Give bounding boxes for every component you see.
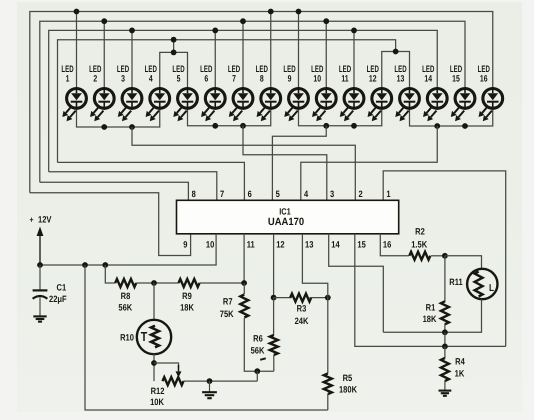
junction bridge bar LED4-5 tap: [171, 50, 177, 56]
wire R1 bottom lead: [444, 324, 446, 333]
wire bridge LED12-LED13 to bus 4: [382, 52, 410, 88]
junction R12 ground node: [207, 378, 213, 384]
wire LED11 anode riser: [353, 30, 355, 87]
wire pin 13 to R5 branch: [302, 234, 327, 374]
LED15: [450, 63, 475, 121]
svg-text:+: +: [30, 214, 34, 224]
svg-text:13: 13: [305, 240, 313, 250]
junction rail / supply: [37, 262, 43, 268]
svg-text:12: 12: [369, 74, 377, 84]
wire left branch to bottom rail: [85, 265, 328, 410]
wire lamp bottom to R1 node: [383, 299, 481, 332]
lamp R11: [467, 269, 497, 299]
svg-text:LED: LED: [283, 63, 295, 74]
svg-text:11: 11: [247, 240, 255, 250]
+12V supply arrow: [39, 234, 41, 265]
svg-text:15: 15: [357, 240, 365, 250]
wire pin 15 / pin 1 line: [355, 234, 506, 347]
resistor R2 1.5K: [409, 252, 430, 260]
svg-text:2: 2: [93, 74, 97, 84]
svg-text:9: 9: [183, 240, 187, 250]
svg-text:9: 9: [288, 74, 292, 84]
junction bus1 / LED9: [296, 9, 302, 15]
junction rail / R8 branch: [102, 262, 108, 268]
svg-text:T: T: [141, 329, 148, 344]
svg-text:8: 8: [192, 189, 196, 199]
svg-text:3: 3: [330, 189, 334, 199]
LED12: [367, 63, 392, 121]
potentiometer R12 10K: [163, 377, 184, 385]
junction R3 / pin13 line: [325, 295, 331, 301]
svg-text:2: 2: [359, 189, 363, 199]
svg-text:R7: R7: [223, 297, 233, 307]
wire R4 top lead: [444, 346, 446, 358]
svg-text:1: 1: [386, 189, 390, 199]
svg-text:15: 15: [452, 74, 460, 84]
wire LED7 anode riser: [242, 21, 244, 87]
svg-text:75K: 75K: [220, 309, 234, 319]
resistor R6 56K: [270, 335, 278, 355]
wire pin 14 link: [329, 234, 384, 332]
svg-text:LED: LED: [422, 63, 434, 74]
ground for C1: [33, 315, 46, 317]
wire LED9 anode riser: [298, 12, 300, 88]
wire cathode tie LEDs 9-12: [299, 110, 382, 126]
svg-text:LED: LED: [89, 63, 101, 74]
svg-text:11: 11: [341, 74, 348, 84]
svg-text:22μF: 22μF: [49, 294, 67, 304]
junction R7-R6 tie: [254, 368, 260, 374]
svg-text:4: 4: [304, 189, 309, 199]
svg-text:13: 13: [397, 74, 405, 84]
wire R3 left lead: [274, 297, 292, 299]
svg-text:R2: R2: [415, 227, 425, 237]
junction tie4 / LED15: [462, 123, 468, 129]
wire cathode tie LEDs 13-16: [410, 110, 493, 126]
svg-text:1K: 1K: [455, 368, 465, 378]
wire ground stem: [209, 381, 211, 392]
LED13: [394, 63, 419, 121]
LED3: [117, 63, 142, 121]
junction bus4 / LED4-5 tap: [171, 37, 177, 43]
svg-text:1.5K: 1.5K: [411, 239, 427, 249]
junction R1 top node: [442, 253, 448, 259]
LED8: [256, 63, 281, 121]
wire R12 wiper arm: [154, 363, 179, 368]
svg-text:14: 14: [424, 74, 432, 84]
svg-text:3: 3: [121, 74, 125, 84]
svg-text:LED: LED: [394, 63, 406, 74]
wire LED1 anode riser: [76, 12, 78, 88]
svg-text:12V: 12V: [38, 215, 52, 225]
svg-text:18K: 18K: [180, 303, 194, 313]
thermistor R10: [137, 320, 171, 354]
svg-text:R4: R4: [455, 357, 465, 367]
svg-text:7: 7: [232, 74, 236, 84]
LED7: [228, 63, 253, 121]
wire cathode tie LEDs 1-4: [77, 110, 160, 127]
wire R7 bottom to tie: [244, 318, 273, 371]
svg-text:R3: R3: [297, 304, 307, 314]
svg-text:14: 14: [331, 240, 340, 250]
wire bus 2 feeder to pin 8: [40, 182, 189, 200]
svg-text:LED: LED: [200, 63, 212, 74]
wire tie3 descent to pin 5: [272, 126, 326, 201]
mark dash under 56K: [260, 358, 266, 360]
junction bus3 / LED3: [129, 28, 135, 34]
svg-text:LED: LED: [117, 63, 129, 74]
svg-text:R6: R6: [253, 333, 263, 343]
wire tie drop to R12 line: [256, 371, 258, 381]
svg-text:R8: R8: [121, 291, 131, 301]
wire pin11 node to R7: [243, 283, 245, 294]
svg-text:C1: C1: [57, 283, 67, 293]
wire R9 to pin 11 node: [200, 282, 245, 284]
svg-text:6: 6: [248, 189, 252, 199]
wire tie1 descent to pin 2: [132, 127, 355, 200]
wire R3 right lead: [310, 297, 328, 299]
wire R8 branch: [105, 265, 115, 283]
junction bus1 / LED8: [268, 9, 274, 15]
junction R1 bottom / lamp line: [442, 329, 448, 335]
resistor R9 18K: [179, 279, 200, 287]
junction tie1 / LED3: [129, 124, 135, 130]
svg-text:LED: LED: [61, 63, 73, 74]
junction tie2 / LED7: [240, 123, 246, 129]
svg-text:5: 5: [276, 189, 280, 199]
wire cathode tie LEDs 5-8: [188, 110, 271, 126]
wire R8 to R10 node: [136, 282, 178, 284]
wire tie4 descent to pin 4: [301, 126, 437, 200]
svg-text:LED: LED: [311, 63, 323, 74]
svg-text:1: 1: [66, 74, 70, 84]
wire R1 node to R4 node: [444, 332, 446, 346]
LED4: [145, 63, 170, 121]
wire LED10 anode riser: [325, 21, 327, 87]
ground for R4: [439, 390, 452, 392]
ground for R12 node: [202, 391, 217, 393]
svg-text:R1: R1: [426, 303, 436, 313]
svg-text:24K: 24K: [295, 316, 309, 326]
junction tie3 / LED11: [351, 123, 357, 129]
svg-text:8: 8: [260, 74, 264, 84]
capacitor C1: [39, 265, 41, 290]
svg-text:R9: R9: [182, 291, 192, 301]
wire R2 to R1 node: [431, 255, 445, 257]
wire R4 bottom lead: [444, 381, 446, 391]
LED5: [172, 63, 197, 121]
resistor R7 75K: [240, 295, 248, 318]
wire bus 4 feeder to pin 6: [58, 162, 245, 200]
wire bus 2 (anode line LEDs 2,7,10,15 to pin 8): [40, 21, 465, 182]
svg-text:56K: 56K: [118, 303, 132, 313]
wire LED6 anode riser: [214, 30, 216, 87]
junction R4 top node: [442, 344, 448, 350]
resistor R8 56K: [115, 279, 136, 287]
wire R6 top lead: [273, 298, 275, 336]
junction bus3 / LED11: [351, 28, 357, 34]
svg-text:R10: R10: [120, 332, 134, 342]
svg-text:180K: 180K: [339, 385, 357, 395]
LED2: [89, 63, 114, 121]
wire R12 to ground node: [184, 380, 258, 382]
wire pin 16 to R2: [380, 234, 409, 256]
wire node to lamp top: [445, 256, 482, 268]
svg-text:18K: 18K: [423, 314, 437, 324]
junction tie1 / LED2: [101, 124, 107, 130]
LED11: [339, 63, 364, 121]
svg-text:UAA170: UAA170: [268, 216, 304, 228]
svg-text:16: 16: [480, 74, 488, 84]
svg-text:LED: LED: [339, 63, 351, 74]
svg-text:10: 10: [206, 240, 214, 250]
junction bus3 / LED6: [212, 28, 218, 34]
junction pin 11 node: [241, 280, 247, 286]
svg-text:10K: 10K: [150, 397, 164, 407]
wire bus 1 (anode line LEDs 1,8,9,16 to pin 9): [30, 12, 493, 193]
LED1: [61, 63, 86, 121]
junction rail / bottom-left branch: [82, 262, 88, 268]
wire +12V rail to pin 10: [40, 234, 216, 265]
wire LED2 anode riser: [103, 21, 105, 87]
wire R5 bottom to rail: [327, 394, 329, 410]
junction pin 12 node: [271, 295, 277, 301]
junction tie4 / LED14: [434, 123, 440, 129]
svg-text:16: 16: [383, 240, 391, 250]
wire R10 top lead: [153, 283, 155, 320]
wire bus 1 feeder to pin 9: [30, 193, 191, 256]
svg-text:LED: LED: [367, 63, 379, 74]
LED10: [311, 63, 336, 121]
resistor R4 1K: [441, 358, 449, 381]
LED16: [478, 63, 503, 121]
svg-text:4: 4: [149, 74, 154, 84]
junction tie3 / LED10: [323, 123, 329, 129]
svg-text:12: 12: [276, 240, 284, 250]
wire R1 top lead: [444, 256, 446, 302]
svg-text:6: 6: [204, 74, 208, 84]
wire LED3 anode riser: [131, 30, 133, 87]
junction bridge bar LED12-13 tap: [393, 49, 399, 55]
svg-text:5: 5: [177, 74, 181, 84]
junction bus2 / LED7: [240, 18, 246, 24]
LED9: [283, 63, 308, 121]
wire bus 3 feeder to pin 7: [49, 172, 217, 201]
svg-text:L: L: [489, 283, 494, 294]
wire R10 bottom lead: [153, 353, 155, 381]
svg-text:LED: LED: [450, 63, 462, 74]
resistor R3 24K: [290, 294, 311, 302]
svg-text:LED: LED: [256, 63, 268, 74]
resistor R5 180K: [324, 374, 332, 395]
svg-text:R5: R5: [343, 373, 353, 383]
junction bus2 / LED10: [323, 18, 329, 24]
junction bus2 / LED2: [101, 18, 107, 24]
wire bus 4 (anode line LEDs 4,5,12,13 to pin 6): [58, 40, 396, 163]
wire pin 11 stub: [243, 234, 245, 283]
LED6: [200, 63, 225, 121]
junction tie2 / LED6: [212, 123, 218, 129]
wire LED8 anode riser: [270, 12, 272, 88]
wire pin 1 feeder down right side: [383, 171, 506, 347]
wire bridge LED4-LED5 to bus 4: [160, 52, 188, 87]
svg-text:LED: LED: [145, 63, 157, 74]
wire tie2 descent to pin 3: [243, 126, 327, 201]
svg-text:R11: R11: [449, 277, 462, 287]
svg-text:R12: R12: [151, 386, 165, 396]
IC U1 box (IC1 UAA170): [177, 200, 399, 234]
wire pin 12 stub: [273, 234, 275, 298]
svg-text:LED: LED: [228, 63, 240, 74]
LED14: [422, 63, 447, 121]
wire R6 bottom lead: [273, 355, 275, 371]
junction R10 / wiper node: [151, 360, 157, 366]
svg-text:56K: 56K: [251, 345, 265, 355]
wire bus 3 (anode line LEDs 3,6,11,14 to pin 7): [49, 30, 438, 171]
svg-text:10: 10: [313, 74, 321, 84]
svg-text:LED: LED: [478, 63, 490, 74]
svg-text:LED: LED: [172, 63, 184, 74]
resistor R1 18K: [441, 301, 449, 324]
svg-text:7: 7: [220, 189, 224, 199]
junction R10 top node: [151, 280, 157, 286]
junction bus1 / LED1: [74, 9, 80, 15]
